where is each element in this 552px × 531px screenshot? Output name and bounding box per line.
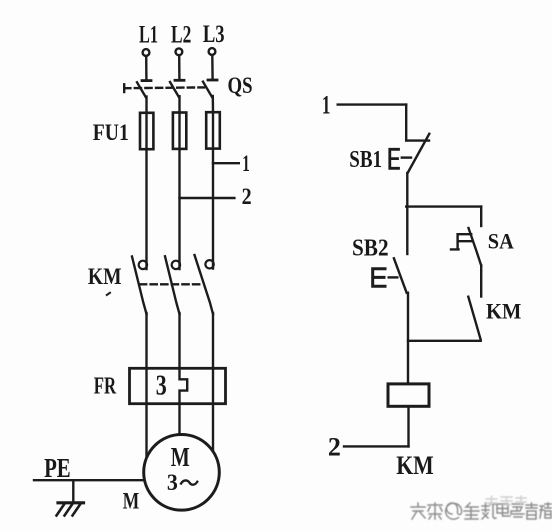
switch QS pole 1 [137,81,151,98]
wire SB1 to tee [406,173,408,207]
svg-text:KM: KM [396,451,434,480]
svg-text:M: M [123,489,140,514]
stray ink speck [107,293,110,295]
wire pole3 FR to motor [212,404,214,455]
wire tee down to SB2 [406,207,408,254]
wire net2 bottom horizontal [344,445,409,447]
svg-text:2: 2 [328,432,341,461]
svg-text:M: M [171,442,190,472]
wire QS to FU1 pole 3 [212,96,215,113]
pushbutton SB1 (NC stop) [390,134,430,173]
FR pole 3 through wire [212,368,214,403]
wire L1 drop [145,56,148,79]
watermark faint overlay [486,496,526,505]
svg-text:QS: QS [228,73,253,98]
ground [57,503,84,516]
fuse FU1 element 2 [173,113,186,149]
wire net1 down to SB1 [405,105,407,141]
thermal relay FR box [130,368,226,403]
wire pole1 KM to FR [145,313,147,368]
FR pole 1 through wire [145,368,147,403]
wire net1 horizontal [338,103,407,105]
FR pole 2 heater element [180,368,188,403]
contactor KM main contact pole 3 [195,255,214,314]
coil KM [388,384,429,406]
wire tee to SA branch [406,205,481,207]
wire pole3 KM to FR [212,313,214,368]
terminal L1 [143,49,150,56]
node 2 stub wire [180,197,235,199]
wire L2 drop [178,55,181,79]
wire SA to KM aux [480,266,482,297]
switch QS pole 3 [203,80,217,97]
wire pole1 FR to motor [145,404,147,458]
QS linkage dashed line [124,86,204,89]
fuse FU1 element 3 [206,112,220,148]
wire pole1 FU1 to KM [145,149,147,269]
svg-text:2: 2 [242,184,252,209]
contactor KM main contact pole 1 [132,257,147,315]
wire pole2 FU1 to KM [178,149,180,269]
svg-text:L2: L2 [171,22,191,49]
svg-text:1: 1 [322,90,331,119]
svg-text:L1: L1 [139,22,158,49]
node 1 stub wire [213,162,239,164]
svg-text:3: 3 [167,470,178,495]
svg-text:3: 3 [156,370,167,402]
wire coil to bottom [407,406,409,446]
svg-text:L3: L3 [203,21,225,48]
wire SB2 to junction and coil [407,293,409,384]
KM linkage dashed line [140,283,203,285]
wire pole2 KM to FR [178,313,180,368]
pushbutton SB2 (NO start) [373,258,407,292]
wire SA branch down [480,207,482,226]
wire PE [34,479,146,481]
terminal L3 [209,48,216,55]
ground stub wire [72,480,74,502]
QS linkage handle tick [123,84,125,92]
wire QS to FU1 pole 1 [145,97,147,113]
motor M circle [144,435,220,511]
svg-text:SA: SA [488,228,514,253]
svg-text:KM: KM [486,298,521,323]
svg-text:PE: PE [44,453,71,483]
svg-text:KM: KM [88,264,122,290]
wire L3 drop [211,55,214,79]
terminal L2 [176,48,183,55]
contactor KM main contact pole 2 [165,256,180,314]
wire QS to FU1 pole 2 [178,96,180,112]
svg-text:FR: FR [94,373,117,399]
selector switch SA [451,228,481,266]
wire pole2 FR to motor [178,404,180,440]
watermark [411,503,551,519]
svg-text:SB1: SB1 [349,147,382,173]
fuse FU1 element 1 [140,113,153,149]
svg-text:1: 1 [242,151,250,176]
svg-text:FU1: FU1 [93,120,129,145]
switch QS pole 2 [170,80,184,97]
wire junction horizontal [408,340,481,342]
svg-text:SB2: SB2 [352,235,389,261]
wire pole3 FU1 to KM [212,149,214,269]
contactor KM auxiliary contact [468,297,480,340]
